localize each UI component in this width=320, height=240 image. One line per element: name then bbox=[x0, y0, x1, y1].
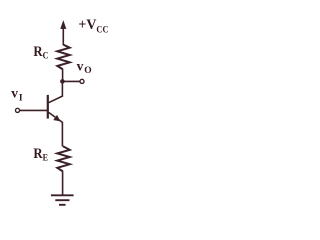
resistor RE bbox=[57, 146, 69, 171]
wire node to vO terminal bbox=[62, 80, 79, 82]
transistor Q1 emitter with arrow bbox=[49, 112, 63, 146]
terminal vO (open circle) bbox=[80, 79, 84, 83]
svg-text:O: O bbox=[84, 66, 91, 76]
svg-text:v: v bbox=[11, 85, 18, 100]
wire vI terminal to base bbox=[20, 109, 48, 111]
transistor Q1 base bar bbox=[47, 95, 49, 119]
svg-text:I: I bbox=[19, 93, 23, 103]
svg-text:v: v bbox=[77, 59, 84, 74]
wire RE bottom to ground bbox=[62, 171, 64, 195]
wire RC bottom to collector node bbox=[62, 69, 64, 81]
ground bbox=[51, 195, 74, 205]
terminal vI (open circle) bbox=[15, 108, 19, 112]
svg-text:RC: RC bbox=[33, 44, 48, 61]
svg-text:RE: RE bbox=[33, 146, 48, 163]
svg-text:+VCC: +VCC bbox=[78, 17, 108, 35]
transistor Q1 collector bbox=[49, 81, 63, 102]
resistor RC bbox=[57, 45, 69, 70]
node: junction dot at collector/vO bbox=[60, 79, 65, 84]
power supply +VCC arrow bbox=[61, 21, 66, 45]
